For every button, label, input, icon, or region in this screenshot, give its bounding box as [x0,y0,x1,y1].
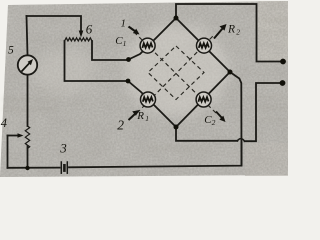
svg-text:2: 2 [236,27,240,36]
svg-text:2: 2 [212,118,216,127]
svg-text:2: 2 [117,117,124,132]
svg-text:5: 5 [8,45,14,57]
svg-text:1: 1 [123,39,127,48]
svg-text:R: R [136,110,144,122]
svg-text:R: R [227,23,235,35]
svg-text:6: 6 [86,22,93,37]
svg-text:1: 1 [145,114,149,123]
svg-text:1: 1 [121,18,127,30]
svg-text:3: 3 [59,141,67,156]
svg-text:4: 4 [1,116,7,130]
